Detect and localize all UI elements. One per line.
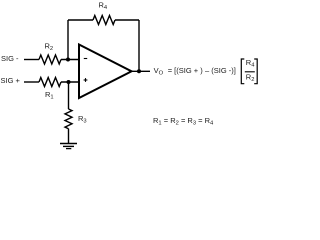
- fraction bracket right: [254, 59, 257, 84]
- junction dot output node: [137, 69, 141, 73]
- wire feedback top left segment: [68, 19, 93, 21]
- fraction bar: [245, 71, 255, 73]
- wire feedback top right segment: [115, 19, 139, 21]
- svg-text:SIG +: SIG +: [1, 76, 21, 85]
- fraction bracket left: [241, 59, 244, 84]
- wire R2 to inverting input: [61, 59, 79, 61]
- resistor R2: [39, 55, 61, 64]
- wire output VO: [132, 70, 151, 72]
- junction dot non-inverting node: [67, 80, 71, 84]
- wire SIG- to R2: [24, 59, 39, 61]
- svg-text:SIG -: SIG -: [1, 54, 19, 63]
- resistor R3: [65, 109, 72, 129]
- wire R1 to non-inverting input: [61, 81, 79, 83]
- svg-text:R1 = R2 = R3 = R4: R1 = R2 = R3 = R4: [153, 116, 214, 127]
- op-amp U1 triangle: [79, 45, 132, 99]
- op-amp inverting pin marker: [84, 58, 87, 60]
- ground: [60, 144, 77, 149]
- resistor R1: [39, 78, 61, 87]
- op-amp non-inverting pin marker: [84, 78, 88, 82]
- wire feedback right vertical: [138, 20, 140, 71]
- wire SIG+ to R1: [24, 81, 39, 83]
- wire node to R3: [68, 82, 70, 109]
- wire feedback left vertical: [67, 20, 69, 60]
- junction dot inverting node: [66, 58, 70, 62]
- wire R3 to ground: [68, 129, 70, 144]
- resistor R4: [93, 16, 115, 25]
